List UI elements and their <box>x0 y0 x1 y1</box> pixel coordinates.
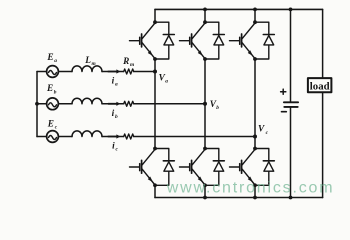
svg-text:L: L <box>84 56 91 66</box>
svg-text:m: m <box>130 62 134 68</box>
svg-text:E: E <box>46 53 53 63</box>
svg-text:www.cntronics.com: www.cntronics.com <box>166 180 335 197</box>
svg-text:a: a <box>115 82 118 88</box>
svg-text:load: load <box>310 81 330 93</box>
svg-text:E: E <box>46 84 53 94</box>
svg-text:b: b <box>216 105 219 111</box>
svg-text:R: R <box>122 57 129 67</box>
svg-text:b: b <box>115 114 118 120</box>
svg-text:m: m <box>92 61 96 67</box>
svg-text:E: E <box>47 119 54 129</box>
svg-text:V: V <box>258 124 265 134</box>
svg-text:a: a <box>165 79 168 85</box>
svg-text:b: b <box>54 89 57 95</box>
svg-text:a: a <box>54 58 57 64</box>
